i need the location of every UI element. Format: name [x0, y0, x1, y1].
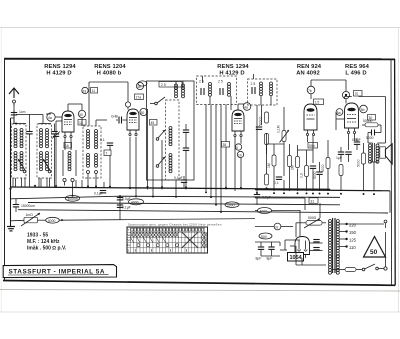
svg-text:1M: 1M — [267, 163, 271, 168]
IF transformer can T1 (dashed) — [83, 126, 101, 178]
oval label 4000 — [38, 196, 121, 223]
tube label U5 RES964 — [345, 64, 370, 77]
coil T1b — [95, 130, 98, 149]
bottom left text 1933-35 — [27, 233, 48, 239]
bus wire 5 — [11, 219, 256, 221]
svg-text:1000: 1000 — [227, 204, 235, 208]
table grid lines — [127, 227, 208, 253]
Urdox resistor — [21, 213, 40, 226]
resistor R12 — [288, 144, 292, 191]
svg-text:4a: 4a — [48, 116, 52, 120]
svg-text:33: 33 — [82, 89, 86, 93]
svg-text:8μF: 8μF — [256, 257, 262, 261]
capacitor C2 — [29, 134, 31, 187]
svg-text:4a: 4a — [244, 105, 248, 109]
svg-text:0,1μF: 0,1μF — [94, 192, 103, 196]
top cap U2 — [125, 102, 130, 110]
wire U1 anode up — [68, 90, 89, 126]
svg-text:4000: 4000 — [260, 209, 268, 213]
transformer taps — [340, 223, 348, 248]
wire T2 down — [203, 76, 232, 213]
capacitor C4 — [100, 138, 113, 145]
osc coil A — [169, 127, 172, 146]
capacitor C1 — [26, 124, 32, 134]
label box 16 — [64, 143, 72, 149]
bus wire 4 — [18, 210, 388, 213]
resistor R4 1M — [267, 155, 276, 168]
label box 7 — [104, 150, 111, 156]
oscillator box inner plate — [159, 82, 182, 88]
svg-text:0,5μF: 0,5μF — [352, 138, 361, 142]
title box — [3, 265, 116, 278]
antenna series capacitor — [11, 103, 26, 124]
svg-text:220: 220 — [349, 223, 357, 228]
osc coil B — [169, 154, 172, 173]
tuning capacitor C3 — [52, 127, 60, 144]
svg-text:150: 150 — [349, 230, 357, 235]
circle label 5a — [336, 109, 343, 116]
wire rectifier area — [255, 240, 326, 265]
svg-text:16: 16 — [65, 144, 69, 148]
svg-text:31: 31 — [310, 199, 314, 203]
capacitor C16 0,5uF — [117, 197, 131, 201]
oval label 4000m — [65, 195, 79, 201]
svg-text:500: 500 — [261, 235, 267, 239]
svg-text:10: 10 — [238, 153, 242, 157]
label box 17a — [135, 94, 144, 100]
capacitor C7 — [256, 127, 262, 129]
circle label 30b — [140, 108, 147, 115]
svg-text:GrBl: GrBl — [111, 115, 118, 119]
tube label U1 RENS1294 — [44, 64, 76, 77]
capacitor C14 — [345, 152, 351, 162]
label box 1054 — [288, 253, 304, 262]
T2 capacitor B — [220, 88, 223, 95]
circle label 9 — [235, 144, 241, 150]
svg-text:50: 50 — [370, 249, 378, 256]
table row labels — [128, 228, 132, 253]
svg-text:4000m: 4000m — [68, 197, 79, 201]
T2 digits — [199, 80, 223, 84]
T2 coil A — [209, 83, 212, 97]
svg-text:S: S — [128, 248, 130, 252]
hum potentiometer 500 — [304, 216, 322, 228]
speaker LS1 — [380, 144, 392, 164]
circle label 10 — [237, 151, 243, 157]
label box 1,5 — [314, 99, 324, 105]
svg-text:17a: 17a — [136, 96, 142, 100]
svg-text:STASSFURT - IMPERIAL 5A: STASSFURT - IMPERIAL 5A — [9, 268, 106, 275]
resistor R3 — [265, 174, 269, 185]
svg-text:125: 125 — [349, 238, 357, 243]
wire bus1b right corner — [389, 191, 391, 213]
tube label U3 RENS1294 — [217, 64, 249, 77]
antenna coil box L1 (dashed) — [12, 124, 27, 178]
circle label 30 — [78, 110, 85, 117]
T3 capacitor A — [252, 87, 255, 94]
T3 digits — [251, 82, 256, 86]
svg-text:8μF: 8μF — [267, 257, 273, 261]
resistor R10 — [339, 164, 343, 191]
svg-text:50b: 50b — [309, 144, 315, 148]
svg-text:2 5: 2 5 — [218, 80, 223, 84]
svg-text:0,1μF: 0,1μF — [122, 206, 131, 210]
frame shadow line — [0, 290, 400, 292]
bus wire 3 — [28, 203, 340, 205]
rectifier caps — [310, 240, 323, 251]
page left edge — [0, 28, 2, 313]
label box 14 — [78, 120, 86, 126]
tap label 110 — [349, 245, 356, 250]
svg-text:1933 - 55: 1933 - 55 — [27, 233, 48, 239]
coil T1d — [95, 154, 98, 168]
coil L2c — [40, 152, 43, 171]
ground bus left — [11, 118, 15, 226]
page bottom edge — [0, 311, 400, 313]
capacitor C19 on bus — [174, 176, 187, 188]
page right edge — [397, 28, 399, 313]
oscillator top coil — [175, 84, 185, 98]
svg-text:0,1: 0,1 — [274, 181, 279, 185]
svg-text:2 5: 2 5 — [199, 80, 204, 84]
capacitor C13 1uF — [336, 147, 344, 162]
coil L1d — [20, 152, 23, 171]
wire T3 down — [254, 74, 272, 191]
IF transformer can T3 (dashed) — [248, 79, 278, 105]
svg-text:L 496 D: L 496 D — [345, 71, 366, 77]
oval label mid bus — [225, 202, 239, 208]
bus wire 1 — [11, 187, 331, 189]
svg-text:5a: 5a — [337, 111, 341, 115]
svg-text:4000: 4000 — [48, 219, 56, 223]
tube U1 RENS1294 — [62, 111, 74, 138]
svg-text:5000: 5000 — [313, 171, 317, 179]
svg-text:7b: 7b — [308, 89, 312, 93]
svg-text:Spannungen gem. gegen Chassis: Spannungen gem. gegen Chassis bei 220V N… — [128, 223, 222, 227]
coil T1a — [87, 130, 90, 149]
svg-text:Vg: Vg — [128, 238, 132, 242]
tube label U4 REN924 — [296, 64, 322, 77]
svg-text:1mΩ: 1mΩ — [26, 213, 34, 217]
svg-text:RENS 1294: RENS 1294 — [44, 64, 76, 70]
wire U3 column — [235, 104, 244, 191]
svg-text:1cm: 1cm — [19, 110, 26, 114]
tube U5 RES964 — [345, 103, 359, 134]
tube U4 REN924 — [304, 104, 317, 136]
oscillator section box — [147, 81, 195, 180]
bottom left text MF — [27, 239, 60, 245]
wire U1 pins down — [65, 138, 71, 151]
capacitor C8 — [274, 177, 282, 185]
wire U5 bottom — [336, 112, 381, 150]
svg-text:7: 7 — [105, 152, 107, 156]
svg-text:0,1μF: 0,1μF — [174, 176, 183, 180]
resistor R7 50000 — [321, 158, 330, 173]
resistor R1 50000 — [259, 112, 269, 126]
label box 70 — [354, 91, 363, 97]
smoothing caps 8uF — [256, 242, 265, 261]
label box 45 — [150, 120, 158, 126]
svg-text:0,7μF: 0,7μF — [262, 196, 271, 200]
resistor R5 2M — [291, 157, 300, 171]
oval label Gr2 — [259, 233, 272, 239]
resistor R8 50000 horizontal — [363, 119, 378, 127]
coil L1a — [14, 129, 17, 148]
oval label left of box — [138, 81, 147, 86]
svg-text:H 4129 D: H 4129 D — [46, 71, 71, 77]
wire osc verticals — [148, 81, 184, 197]
tube U3 RENS1294 — [232, 110, 244, 137]
tube label U2 RENS1204 — [94, 64, 126, 77]
svg-text:5000: 5000 — [366, 136, 374, 140]
coil L2b — [46, 129, 49, 148]
bus wire 2 — [11, 196, 341, 199]
svg-text:11: 11 — [92, 89, 96, 93]
svg-text:30: 30 — [79, 113, 83, 117]
table header cell marks — [131, 228, 204, 231]
svg-text:9: 9 — [236, 146, 238, 150]
oscillator inner can (dashed) — [166, 100, 180, 180]
switch arm L1 — [18, 159, 26, 173]
page top edge — [0, 27, 400, 29]
oscillator top switch — [150, 97, 165, 105]
bandfilter box L2 (dashed) — [37, 124, 52, 178]
circle label 36 — [136, 82, 143, 89]
wire T1 top to U2 cap — [89, 82, 128, 102]
volume potentiometer — [277, 107, 290, 143]
bottom left text Imax — [27, 246, 67, 252]
junction dots — [34, 185, 375, 213]
label box 30 — [368, 115, 376, 121]
coil box bottom stubs — [13, 178, 104, 188]
ground — [7, 227, 15, 231]
svg-text:Va: Va — [128, 233, 132, 237]
label box 506 — [308, 143, 318, 149]
circle label 33 — [82, 87, 88, 93]
wire detector area — [267, 133, 320, 191]
tap label 125 — [349, 238, 357, 243]
svg-text:500Ω: 500Ω — [308, 216, 317, 220]
T3 coil B — [270, 82, 273, 96]
capacitor C12 0,5uF — [352, 138, 361, 150]
mains frequency triangle 50 — [364, 237, 386, 258]
switch arm L2 — [43, 159, 51, 173]
T3 coil A — [260, 82, 263, 96]
wire L1 top — [13, 123, 26, 125]
rectifier tube 1054 — [295, 237, 310, 259]
wire U4 grid cap — [310, 80, 312, 105]
trimmer 4a — [47, 113, 55, 121]
svg-text:RENS 1294: RENS 1294 — [217, 64, 249, 70]
oscillator coil L3 — [63, 150, 76, 176]
svg-text:Imäk . 500 Ω p.V.: Imäk . 500 Ω p.V. — [27, 246, 67, 252]
voltage selector table — [127, 227, 208, 253]
svg-text:110: 110 — [349, 245, 356, 250]
svg-text:V: V — [128, 228, 130, 232]
capacitor C18 0,7uF — [254, 190, 271, 205]
osc switch arrow A — [156, 130, 165, 140]
coil L1b — [20, 129, 23, 148]
svg-text:4000: 4000 — [131, 201, 139, 205]
wire speaker — [368, 143, 386, 191]
svg-text:AN 4092: AN 4092 — [296, 71, 320, 77]
capacitor C15 0,1uF — [94, 191, 106, 196]
svg-text:5000: 5000 — [321, 164, 325, 172]
IF transformer can T2 (dashed) — [197, 76, 237, 105]
svg-text:RENS 1204: RENS 1204 — [94, 64, 126, 70]
grid series capacitor C5 — [111, 115, 127, 124]
svg-text:0,1M: 0,1M — [277, 125, 281, 133]
coil L1c — [14, 152, 17, 171]
wire U1 grid — [46, 114, 62, 186]
circle label 5b — [360, 105, 368, 113]
capacitor C17 0,1uF — [117, 205, 131, 210]
oval label Gr1 — [255, 208, 300, 214]
tap label 220 — [349, 223, 357, 228]
svg-text:2 5: 2 5 — [161, 83, 166, 87]
svg-text:2 5: 2 5 — [251, 82, 256, 86]
wire L2 bottom — [41, 134, 55, 187]
mains switch — [333, 232, 387, 272]
circle label N — [274, 223, 281, 230]
wire antenna column — [14, 110, 43, 124]
coil L2a — [40, 129, 43, 148]
switch contacts L3 — [63, 178, 74, 195]
table caption — [128, 223, 222, 227]
svg-text:5b: 5b — [361, 108, 365, 112]
top cap U5 — [342, 91, 349, 103]
wire hum pot — [255, 223, 326, 237]
svg-text:M.F. : 124 kHz: M.F. : 124 kHz — [27, 239, 60, 245]
svg-text:35: 35 — [223, 143, 227, 147]
svg-text:H 4080 b: H 4080 b — [97, 71, 122, 77]
wire R7 — [327, 140, 329, 191]
antenna — [9, 88, 19, 106]
osc switch arrow B — [156, 157, 165, 167]
tap label 150 — [349, 230, 357, 235]
table X marks — [130, 232, 207, 252]
T2 capacitor A — [201, 88, 204, 95]
junction dot left — [9, 188, 11, 190]
svg-text:REN 924: REN 924 — [297, 64, 322, 70]
svg-text:RES 964: RES 964 — [345, 64, 370, 70]
border frame — [3, 58, 395, 286]
coil T1c — [87, 154, 90, 168]
svg-text:1,5: 1,5 — [315, 101, 320, 105]
wire L1 bottom — [16, 178, 22, 187]
padder capacitor C6 — [183, 124, 189, 190]
svg-text:H 4129 D: H 4129 D — [219, 71, 244, 77]
label box 11 — [91, 88, 98, 94]
resistor R9 50000 — [357, 143, 366, 191]
wire U5 top — [311, 80, 386, 143]
coil L2d — [46, 152, 49, 171]
resistor R2 — [265, 134, 269, 145]
output transformer T4 — [369, 143, 380, 163]
svg-text:45: 45 — [151, 121, 155, 125]
label box 35 — [222, 142, 230, 148]
bus wire 1b — [255, 189, 390, 191]
svg-text:0,1: 0,1 — [100, 138, 105, 142]
svg-text:5000: 5000 — [357, 159, 361, 167]
svg-text:50000: 50000 — [363, 119, 373, 123]
resistor R6 — [300, 166, 309, 179]
wire mains right — [346, 220, 387, 228]
svg-text:15000cm: 15000cm — [21, 204, 35, 208]
wire T1 to U2 — [96, 120, 110, 186]
wire U2 pins down — [129, 137, 137, 198]
capacitor C11 — [366, 130, 375, 141]
smoothing cap 8uF b — [267, 242, 275, 261]
circle label 4b — [243, 103, 251, 111]
capacitor C2b — [39, 124, 58, 134]
svg-text:70: 70 — [355, 92, 359, 96]
svg-text:0,3: 0,3 — [300, 173, 304, 178]
mains transformer T5 — [329, 218, 340, 274]
label box 31 — [309, 198, 318, 204]
T2 coil B — [228, 83, 231, 97]
circle label 7b — [307, 86, 315, 94]
capacitor C10 5000 — [313, 171, 323, 179]
wire PSU top — [255, 198, 320, 237]
svg-text:30: 30 — [141, 111, 145, 115]
capacitor C20 15000cm — [13, 199, 35, 213]
capacitor C9 — [310, 166, 316, 191]
contacts T1 — [87, 171, 98, 186]
tube U2 RENS1204 — [127, 109, 139, 136]
oval label 502b — [129, 199, 144, 205]
